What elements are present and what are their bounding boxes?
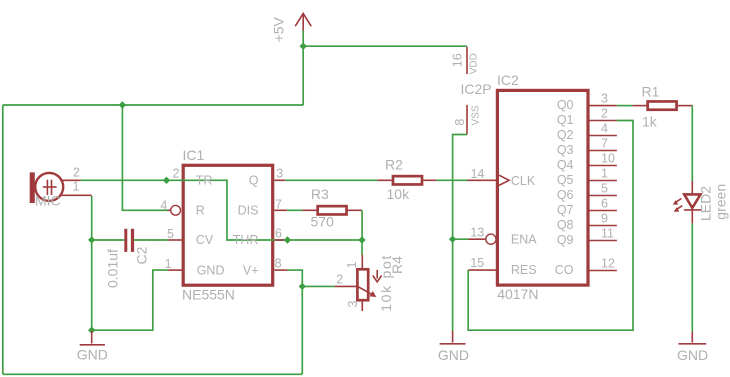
pin IC2 Q7 stub: [588, 210, 617, 212]
pin name CLK: [511, 174, 536, 188]
svg-text:R1: R1: [642, 83, 660, 99]
wire THR link: [288, 239, 363, 241]
pin IC2 Q3 stub: [588, 150, 617, 152]
node C2 junction: [88, 236, 95, 243]
pin number 14: [471, 167, 485, 181]
svg-text:2: 2: [336, 273, 343, 287]
potentiometer R4: [335, 255, 382, 312]
node reset rail junction: [119, 101, 126, 108]
wire reset net vertical: [122, 105, 167, 210]
pin IC2 Q5 stub: [588, 180, 617, 182]
wire DIS to R3: [287, 209, 302, 211]
pin number 13: [470, 225, 484, 239]
svg-text:R2: R2: [385, 157, 403, 173]
svg-text:2: 2: [173, 167, 180, 181]
svg-text:GND: GND: [77, 347, 108, 363]
wire C2 left: [92, 239, 125, 241]
pin name TR: [196, 173, 213, 187]
svg-text:GND: GND: [438, 347, 469, 363]
pin name Q5: [557, 173, 574, 187]
label R2: [385, 157, 403, 173]
resistor R1: [632, 101, 692, 109]
svg-text:Q7: Q7: [557, 203, 574, 217]
pin name Q3: [557, 143, 574, 157]
wire TR to THR through IC1: [81, 180, 288, 240]
pin IC1 R bubble: [168, 205, 181, 215]
pin IC1 THR stub: [275, 239, 288, 241]
wire GND net left: [92, 240, 168, 330]
pin IC1 GND stub: [168, 269, 183, 271]
pin name V+: [243, 263, 259, 277]
svg-text:3: 3: [346, 301, 360, 308]
svg-text:11: 11: [601, 226, 614, 240]
supply +5V symbol: [295, 13, 311, 30]
svg-text:5: 5: [601, 181, 608, 195]
pin name Q9: [557, 233, 574, 247]
power IC2P VDD pin 16: [466, 47, 468, 74]
svg-text:IC1: IC1: [183, 147, 205, 163]
svg-text:IC2: IC2: [497, 72, 519, 88]
svg-text:4: 4: [601, 121, 608, 135]
pin name Q6: [557, 188, 574, 202]
pin number IC1 3: [276, 166, 283, 180]
ground GND right: [678, 332, 706, 344]
svg-text:C2: C2: [133, 246, 149, 264]
wire +5V to VDD: [303, 45, 467, 47]
svg-text:R: R: [196, 204, 205, 218]
svg-text:DIS: DIS: [238, 204, 259, 218]
pin IC2 Q1 stub: [588, 120, 617, 122]
pin MIC 2 stub: [60, 179, 81, 181]
node THR pin junction: [284, 236, 291, 243]
label IC2P: [461, 81, 492, 97]
pin number IC1 7: [275, 198, 282, 212]
pin name Q8: [557, 218, 574, 232]
node V+ junction: [299, 283, 306, 290]
svg-text:GND: GND: [197, 263, 225, 277]
svg-text:+5V: +5V: [271, 16, 287, 42]
svg-text:GND: GND: [677, 347, 708, 363]
svg-text:TR: TR: [196, 173, 213, 187]
pin number 16: [451, 53, 465, 67]
pin name Q4: [557, 158, 574, 172]
label NE555N: [182, 287, 235, 303]
wire R2 to CLK: [436, 179, 467, 181]
label +5V: [271, 16, 287, 42]
pin number IC1 2: [173, 167, 180, 181]
label MIC: [35, 192, 61, 208]
svg-text:VSS: VSS: [470, 105, 481, 125]
svg-text:CO: CO: [555, 263, 574, 277]
pin number IC1 8: [275, 256, 282, 270]
node R3 pot junction: [358, 236, 365, 243]
pin number Q5 1: [601, 166, 608, 180]
pin number R4 3: [346, 301, 360, 308]
wire +5V top rail: [3, 104, 303, 106]
wire RES to Q1: [468, 121, 633, 331]
svg-text:10k: 10k: [387, 186, 411, 202]
svg-text:7: 7: [601, 136, 608, 150]
svg-text:4: 4: [160, 198, 167, 212]
node ENA junction: [449, 236, 456, 243]
pin IC2 Q4 stub: [588, 165, 617, 167]
pin name DIS: [238, 204, 259, 218]
svg-text:MIC: MIC: [35, 192, 61, 208]
label 10k R2: [387, 186, 411, 202]
label GND left: [77, 347, 108, 363]
pin number Q1 2: [601, 106, 608, 120]
pin IC2 Q2 stub: [588, 135, 617, 137]
svg-text:Q9: Q9: [557, 233, 574, 247]
svg-text:Q8: Q8: [557, 218, 574, 232]
label R4: [389, 256, 405, 274]
pin name Q: [249, 173, 259, 187]
pin name Q2: [557, 128, 574, 142]
svg-text:NE555N: NE555N: [182, 287, 235, 303]
wire +5V left rail: [2, 105, 4, 374]
pin IC2 CO stub: [588, 270, 617, 272]
ground GND middle: [440, 331, 466, 344]
counter IC2 4017N body: [497, 90, 588, 285]
wire R1 to LED: [691, 106, 693, 181]
node GND junction: [88, 327, 95, 334]
pin IC1 CV stub: [168, 239, 183, 241]
pin number Q6 5: [601, 181, 608, 195]
svg-text:2: 2: [73, 166, 80, 180]
svg-text:Q0: Q0: [557, 98, 574, 112]
pin IC1 DIS stub: [275, 209, 288, 211]
label 0.01uf: [105, 249, 121, 288]
svg-text:Q3: Q3: [557, 143, 574, 157]
pin number 15: [470, 256, 484, 270]
svg-text:Q2: Q2: [557, 128, 574, 142]
wire Q0 to R1: [617, 105, 633, 107]
svg-text:12: 12: [601, 256, 615, 270]
svg-text:1: 1: [601, 166, 608, 180]
wire MIC1 down: [91, 196, 93, 240]
svg-text:THR: THR: [233, 233, 259, 247]
label GND right: [677, 347, 708, 363]
svg-text:14: 14: [471, 167, 485, 181]
svg-text:IC2P: IC2P: [461, 81, 492, 97]
pin number IC1 4: [160, 198, 167, 212]
label LED2: [698, 186, 714, 221]
svg-text:Q4: Q4: [557, 158, 574, 172]
pin number Q9 11: [601, 226, 614, 240]
pin name VSS: [470, 105, 481, 125]
svg-text:5: 5: [167, 227, 174, 241]
pin name Q0: [557, 98, 574, 112]
resistor R3: [302, 206, 362, 214]
svg-text:9: 9: [601, 211, 608, 225]
pin name RES: [511, 263, 537, 277]
pin name THR: [233, 233, 259, 247]
pin number IC1 1: [165, 257, 172, 271]
wire +5V riser: [302, 31, 304, 106]
pin name CO: [555, 263, 574, 277]
pin number MIC 1: [73, 179, 80, 193]
pin number R4 1: [345, 262, 359, 269]
wire C2 to CV: [134, 239, 168, 241]
pin number Q4 10: [601, 151, 615, 165]
pin number IC1 6: [275, 226, 282, 240]
svg-text:1: 1: [73, 179, 80, 193]
pin IC2 ENA bubble: [468, 234, 496, 244]
svg-text:6: 6: [601, 196, 608, 210]
wire ENA branch: [453, 238, 469, 240]
led LED2: [673, 181, 701, 223]
pin number Q0 3: [601, 91, 608, 105]
svg-text:1: 1: [345, 262, 359, 269]
pin number 8: [453, 119, 467, 126]
svg-text:V+: V+: [243, 263, 259, 277]
pin number Q2 4: [601, 121, 608, 135]
svg-text:R4: R4: [389, 256, 405, 274]
svg-text:LED2: LED2: [698, 186, 714, 221]
svg-text:1: 1: [165, 257, 172, 271]
pin name Q7: [557, 203, 574, 217]
pin name Q1: [557, 113, 574, 127]
label C2: [133, 246, 149, 264]
label R3: [311, 186, 329, 202]
svg-text:CLK: CLK: [511, 174, 536, 188]
svg-text:Q: Q: [249, 173, 259, 187]
pin number Q8 9: [601, 211, 608, 225]
label IC2: [497, 72, 519, 88]
svg-text:3: 3: [601, 91, 608, 105]
svg-text:green: green: [713, 184, 729, 220]
label R1: [642, 83, 660, 99]
svg-text:8: 8: [275, 256, 282, 270]
label 4017N: [497, 286, 538, 302]
svg-text:VDD: VDD: [469, 53, 480, 74]
pin number Q7 6: [601, 196, 608, 210]
svg-text:1k: 1k: [642, 113, 658, 129]
svg-text:CV: CV: [196, 233, 214, 247]
resistor R2: [377, 176, 436, 184]
label GND middle: [438, 347, 469, 363]
svg-text:15: 15: [470, 256, 484, 270]
svg-text:16: 16: [451, 53, 465, 67]
wire pot pin1: [361, 240, 363, 255]
wire LED to GND: [691, 223, 693, 331]
svg-text:Q5: Q5: [557, 173, 574, 187]
svg-text:Q1: Q1: [557, 113, 574, 127]
op IC1 NE555N body: [183, 165, 273, 285]
label 1k: [642, 113, 658, 129]
capacitor C2: [124, 229, 134, 252]
svg-text:13: 13: [470, 225, 484, 239]
wire Q to R2: [285, 179, 377, 181]
label 570: [311, 213, 335, 229]
label green: [713, 184, 729, 220]
svg-text:0.01uf: 0.01uf: [105, 249, 121, 288]
pin IC2 Q0 stub: [588, 105, 617, 107]
pin IC2 RES stub: [468, 269, 497, 271]
pin IC2 Q9 stub: [588, 240, 617, 242]
svg-text:8: 8: [453, 119, 467, 126]
svg-text:570: 570: [311, 213, 335, 229]
pin IC1 V+ stub: [275, 269, 288, 271]
wire R3 down to THR net: [361, 210, 363, 240]
svg-text:6: 6: [275, 226, 282, 240]
svg-text:Q6: Q6: [557, 188, 574, 202]
node TR junction: [163, 177, 170, 184]
label IC1: [183, 147, 205, 163]
pin MIC 1 stub: [60, 194, 92, 196]
pin number IC1 5: [167, 227, 174, 241]
pin IC2 CLK stub: [468, 175, 510, 185]
svg-text:RES: RES: [511, 263, 537, 277]
pin IC1 Q stub: [275, 179, 286, 181]
label 10k pot: [378, 254, 394, 312]
pin name VDD: [469, 53, 480, 74]
microphone MIC: [30, 172, 64, 203]
svg-text:2: 2: [601, 106, 608, 120]
pin number MIC 2: [73, 166, 80, 180]
pin name ENA: [511, 233, 537, 247]
wire VSS down: [453, 135, 467, 332]
pin number CO 12: [601, 256, 615, 270]
pin name CV: [196, 233, 214, 247]
wire wiper to V+ column: [302, 285, 335, 287]
pin name R: [196, 204, 205, 218]
wire V+ branch: [287, 270, 302, 374]
power IC2P VSS pin 8: [466, 105, 468, 135]
pin number R4 2: [336, 273, 343, 287]
pin name GND: [197, 263, 225, 277]
wire +5V bottom rail: [3, 373, 303, 375]
svg-text:R3: R3: [311, 186, 329, 202]
svg-text:7: 7: [275, 198, 282, 212]
svg-text:10: 10: [601, 151, 615, 165]
node +5V junction: [300, 43, 307, 50]
pin IC2 Q6 stub: [588, 195, 617, 197]
svg-text:3: 3: [276, 166, 283, 180]
svg-text:4017N: 4017N: [497, 286, 538, 302]
ground GND left: [80, 331, 105, 345]
svg-text:ENA: ENA: [511, 233, 537, 247]
pin IC2 Q8 stub: [588, 225, 617, 227]
pin number Q3 7: [601, 136, 608, 150]
